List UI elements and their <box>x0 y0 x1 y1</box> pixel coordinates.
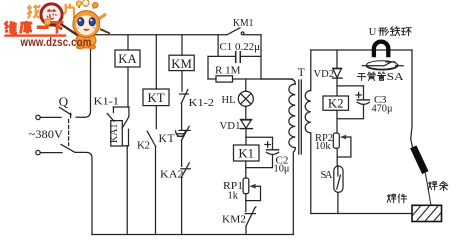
svg-text:K2: K2 <box>328 97 344 111</box>
svg-text:U: U <box>369 27 377 38</box>
svg-text:T: T <box>298 67 305 79</box>
svg-text:R 1M: R 1M <box>215 64 241 76</box>
svg-text:KM2: KM2 <box>222 213 246 225</box>
svg-text:KM1: KM1 <box>233 18 254 29</box>
svg-text:KA1: KA1 <box>109 124 120 143</box>
svg-text:K2: K2 <box>137 139 150 151</box>
svg-text:KT: KT <box>147 91 164 105</box>
svg-text:K1-2: K1-2 <box>189 97 215 109</box>
svg-text:1k: 1k <box>228 190 239 201</box>
svg-text:Q: Q <box>59 94 69 109</box>
svg-text:SA: SA <box>321 170 333 181</box>
svg-text:HL: HL <box>222 95 236 106</box>
svg-text:K1-1: K1-1 <box>94 95 120 107</box>
svg-text:470μ: 470μ <box>372 104 393 115</box>
svg-text:C1 0.22μ: C1 0.22μ <box>220 42 261 53</box>
svg-text:10μ: 10μ <box>274 163 290 175</box>
svg-text:www.dzsc.com: www.dzsc.com <box>20 37 92 49</box>
svg-text:~380V: ~380V <box>29 127 64 141</box>
svg-text:K1: K1 <box>238 147 254 161</box>
svg-text:KT: KT <box>159 133 175 145</box>
svg-text:KM: KM <box>171 57 192 71</box>
svg-text:SA: SA <box>387 71 404 83</box>
svg-text:VD1: VD1 <box>220 120 241 132</box>
svg-text:10k: 10k <box>315 141 331 152</box>
svg-text:KA2: KA2 <box>160 168 184 180</box>
svg-text:VD2: VD2 <box>314 69 335 80</box>
svg-text:KA: KA <box>118 52 137 66</box>
